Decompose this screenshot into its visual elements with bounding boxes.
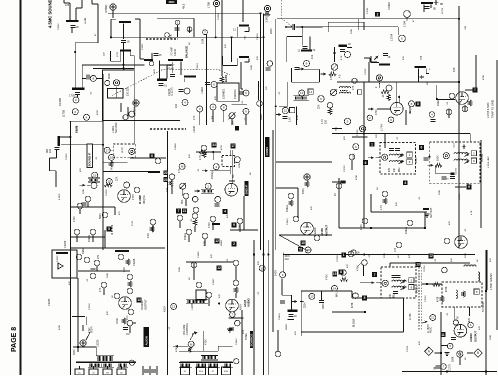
resistor	[462, 291, 466, 297]
capacitor	[151, 370, 156, 372]
callout 12b	[217, 266, 222, 271]
terminal	[155, 158, 161, 164]
svg-text:470K: 470K	[59, 324, 61, 330]
pin 8b	[409, 285, 414, 290]
callout 17	[231, 144, 236, 149]
terminal 13	[299, 90, 305, 96]
svg-text:C1709: C1709	[424, 265, 426, 272]
terminal	[351, 250, 356, 255]
wire	[418, 69, 420, 83]
svg-text:8: 8	[340, 270, 342, 274]
terminal	[84, 257, 90, 263]
callout 23	[163, 177, 168, 182]
wire diagonal	[279, 235, 308, 251]
wire	[364, 57, 370, 59]
svg-text:250K: 250K	[453, 356, 455, 362]
wire	[134, 121, 136, 145]
transformer winding b	[102, 363, 114, 368]
wire	[229, 180, 235, 182]
arrow	[400, 286, 407, 291]
wire	[177, 25, 179, 37]
svg-text:470K: 470K	[297, 114, 299, 120]
wire	[152, 225, 154, 232]
svg-text:4700: 4700	[208, 222, 211, 228]
terminal	[259, 265, 265, 271]
terminal	[430, 315, 436, 321]
terminal	[447, 343, 453, 349]
svg-text:12: 12	[431, 316, 435, 320]
ground G1	[424, 214, 429, 217]
svg-text:450V: 450V	[164, 306, 167, 312]
svg-text:C1211: C1211	[74, 125, 78, 133]
svg-text:1MEG: 1MEG	[261, 114, 263, 120]
wire bus 3	[275, 19, 277, 250]
terminal	[101, 282, 107, 288]
junction	[363, 132, 365, 134]
capacitor C1211	[55, 148, 60, 150]
svg-text:C1711: C1711	[407, 345, 409, 352]
wire long horizontal bottom	[283, 254, 475, 256]
wire	[76, 235, 78, 242]
coil T1701 secondary	[390, 161, 404, 162]
svg-text:4C: 4C	[78, 373, 81, 375]
wire long vertical	[363, 82, 365, 228]
svg-text:10: 10	[301, 241, 305, 245]
coil L1209 core	[184, 76, 196, 78]
wire bus 6	[272, 130, 274, 332]
svg-text:47K: 47K	[99, 287, 102, 292]
arrow	[191, 331, 198, 336]
tube V1703	[455, 236, 468, 249]
terminal	[344, 118, 350, 124]
svg-text:PAGE 8: PAGE 8	[11, 327, 18, 352]
terminal	[127, 288, 133, 294]
wire	[475, 55, 477, 90]
diode M1201	[58, 263, 63, 269]
svg-text:13: 13	[310, 295, 314, 299]
wire long vertical left	[69, 121, 71, 375]
tube V1401 video amp	[225, 183, 238, 196]
svg-text:C1207: C1207	[142, 43, 144, 50]
resistor R1230	[122, 318, 126, 324]
capacitor	[436, 366, 441, 368]
terminal	[353, 144, 359, 150]
wire	[358, 19, 360, 30]
svg-text:4BQ7: 4BQ7	[408, 106, 412, 114]
callout 2b	[232, 242, 237, 247]
wire	[378, 81, 380, 88]
control box	[196, 290, 206, 300]
adjustment screw A1402	[304, 174, 310, 180]
svg-text:1N60: 1N60	[82, 247, 85, 254]
terminal	[104, 147, 110, 153]
svg-text:AU2C: AU2C	[430, 326, 433, 333]
resistor element	[294, 96, 310, 101]
wire	[204, 239, 206, 246]
svg-text:10: 10	[261, 266, 265, 270]
wire	[370, 56, 372, 63]
svg-text:4700: 4700	[73, 216, 76, 222]
svg-text:1.5K: 1.5K	[289, 117, 292, 122]
svg-text:220K: 220K	[465, 252, 467, 258]
svg-text:470K: 470K	[352, 302, 354, 308]
resistor R1231	[234, 287, 238, 293]
terminal	[175, 20, 180, 25]
capacitor C1222	[82, 203, 87, 205]
wire	[231, 119, 233, 125]
terminal	[72, 109, 78, 115]
capacitor	[389, 149, 394, 151]
wire	[360, 282, 373, 284]
wire	[241, 88, 243, 90]
wire	[171, 62, 173, 73]
terminal box	[181, 367, 190, 375]
svg-text:C1701: C1701	[367, 7, 369, 14]
terminal	[213, 164, 219, 170]
tube V1704 audio output	[454, 325, 467, 338]
capacitor C1217	[178, 90, 183, 92]
section label	[245, 181, 249, 196]
callout 22	[163, 170, 168, 175]
wire	[248, 27, 250, 31]
terminal	[409, 101, 415, 107]
terminal	[352, 78, 357, 83]
wire	[232, 103, 247, 105]
wire	[133, 56, 135, 70]
wire	[424, 212, 426, 228]
terminal	[221, 105, 227, 111]
svg-text:8: 8	[417, 102, 419, 106]
coil L1707	[464, 265, 476, 267]
terminal	[233, 280, 239, 286]
svg-text:47K: 47K	[295, 331, 297, 335]
terminal	[243, 90, 249, 96]
wire diagonal 2	[190, 331, 195, 340]
junction	[262, 36, 264, 38]
wire	[231, 150, 233, 183]
terminal	[429, 112, 435, 118]
capacitor	[393, 292, 398, 294]
svg-text:47K: 47K	[169, 34, 173, 39]
terminal	[288, 193, 294, 199]
transformer winding f	[207, 363, 220, 368]
svg-text:100 22K: 100 22K	[127, 86, 130, 96]
svg-text:220K: 220K	[490, 334, 492, 340]
terminal	[179, 163, 185, 169]
resistor R1211	[109, 161, 113, 167]
transformer core bar	[76, 362, 136, 363]
wire	[352, 136, 367, 138]
wire vertical	[241, 310, 243, 375]
svg-text:9: 9	[468, 185, 470, 189]
wire	[215, 7, 217, 38]
svg-text:140V: 140V	[275, 270, 278, 276]
svg-text:1M: 1M	[126, 333, 129, 336]
svg-text:17: 17	[106, 148, 110, 152]
wire long	[77, 278, 79, 352]
coil core	[339, 45, 348, 47]
wire	[300, 301, 304, 303]
svg-text:C1228: C1228	[133, 258, 136, 266]
svg-text:TONE: TONE	[245, 333, 248, 340]
capacitor C1226	[91, 269, 96, 271]
svg-text:47K: 47K	[257, 56, 259, 60]
wire	[120, 103, 122, 112]
resistor R1215	[264, 12, 270, 16]
arrow	[428, 164, 434, 167]
terminal box	[222, 367, 231, 375]
wire	[425, 69, 427, 74]
svg-text:(C1217): (C1217)	[171, 87, 174, 96]
terminal	[388, 117, 394, 123]
wire	[81, 65, 83, 88]
wire	[121, 366, 123, 369]
variable capacitor C1220	[285, 24, 295, 30]
resistor R1702	[387, 95, 391, 101]
wire	[300, 68, 319, 70]
terminal	[192, 196, 198, 202]
svg-text:47uH: 47uH	[167, 67, 174, 71]
wire	[376, 282, 381, 284]
wire	[114, 207, 116, 215]
section label CONV	[265, 137, 270, 157]
svg-text:47K: 47K	[193, 115, 196, 120]
coil L1704b	[340, 92, 351, 93]
wire	[186, 261, 233, 263]
capacitor	[396, 276, 401, 278]
wire	[301, 27, 303, 46]
svg-text:4.5MC: 4.5MC	[104, 5, 108, 13]
coil L1410 core	[288, 310, 298, 313]
wire	[276, 114, 279, 116]
svg-text:4.5MC: 4.5MC	[59, 193, 61, 200]
wire	[281, 278, 283, 295]
resistor R1212	[104, 183, 112, 187]
transformer winding a	[88, 363, 104, 368]
terminal	[210, 216, 216, 222]
capacitor	[266, 68, 271, 70]
capacitor C1206	[87, 75, 89, 80]
wire	[384, 134, 386, 149]
terminal	[349, 154, 355, 160]
wire	[282, 294, 292, 296]
pin square	[358, 90, 362, 94]
wire AGC line	[277, 18, 459, 20]
terminal	[206, 292, 212, 298]
svg-text:450V: 450V	[285, 256, 291, 258]
wire	[469, 307, 471, 316]
wire	[79, 209, 81, 214]
capacitor	[451, 338, 456, 340]
resistor R1708	[440, 296, 444, 302]
transformer winding e	[195, 363, 208, 368]
wire	[76, 7, 82, 9]
wire	[279, 105, 288, 107]
tube V1204 audio amp	[226, 299, 239, 312]
wire	[486, 250, 488, 290]
svg-text:C1230: C1230	[97, 339, 100, 347]
wire	[159, 64, 172, 66]
wire	[72, 316, 85, 318]
coil L1203 core	[120, 50, 131, 52]
junction	[215, 36, 217, 38]
wire	[223, 111, 225, 123]
terminal	[382, 191, 388, 197]
svg-text:1-3/4: 1-3/4	[403, 21, 407, 27]
svg-text:470K: 470K	[483, 74, 485, 80]
coil T1703 primary	[392, 280, 406, 281]
adjustment screw	[129, 148, 135, 154]
pot 2	[330, 89, 336, 95]
capacitor C1216	[205, 83, 210, 85]
coil T1702 secondary	[454, 159, 468, 160]
wire	[371, 211, 427, 213]
terminal	[85, 196, 91, 202]
resistor R1228	[126, 259, 130, 265]
svg-text:47K: 47K	[69, 281, 71, 285]
terminal 8	[90, 75, 96, 81]
svg-text:C1707: C1707	[450, 363, 452, 371]
linkage dashed vertical	[281, 0, 283, 18]
ground G3	[227, 329, 232, 332]
wire	[351, 291, 353, 298]
svg-text:SET BRT: SET BRT	[430, 207, 433, 218]
callout 5	[107, 227, 112, 232]
wire	[82, 77, 86, 79]
svg-text:470K: 470K	[446, 286, 448, 292]
wire	[376, 157, 381, 159]
wire	[75, 42, 98, 44]
callout 8	[416, 102, 421, 107]
wire	[86, 317, 88, 325]
junction	[426, 283, 428, 285]
pot arrow	[332, 64, 338, 70]
wire	[157, 17, 194, 19]
wire	[171, 186, 173, 194]
svg-text:TO GRID: TO GRID	[482, 302, 485, 312]
wire	[218, 345, 232, 347]
wire	[208, 298, 210, 306]
pot arrow	[86, 332, 90, 340]
wire right edge vertical	[485, 250, 487, 375]
svg-text:220K: 220K	[251, 64, 253, 70]
junction	[334, 52, 336, 54]
capacitor	[340, 50, 345, 52]
wire	[245, 30, 249, 32]
wire	[436, 85, 438, 100]
wire	[103, 288, 105, 295]
svg-text:41B: 41B	[199, 371, 203, 373]
terminal	[197, 106, 203, 112]
arrow	[276, 113, 282, 116]
terminal	[446, 109, 452, 115]
capacitor C1203	[154, 54, 159, 56]
terminal	[237, 218, 243, 224]
wire	[363, 22, 365, 30]
svg-text:47K: 47K	[189, 154, 191, 158]
svg-text:4: 4	[404, 181, 406, 185]
wire	[467, 183, 469, 185]
terminal	[106, 179, 112, 185]
section label SOURCE	[250, 331, 254, 348]
svg-text:C1708: C1708	[337, 255, 339, 262]
svg-text:5: 5	[364, 296, 366, 300]
wire horizontal	[276, 161, 332, 163]
wire	[149, 366, 151, 375]
junction	[74, 51, 76, 53]
wire bus 5	[267, 240, 269, 375]
callout 12d	[429, 254, 434, 259]
terminal	[90, 273, 96, 279]
svg-text:220K: 220K	[107, 272, 109, 278]
svg-text:47K: 47K	[80, 168, 82, 172]
svg-text:ALIGN: ALIGN	[144, 336, 148, 345]
wire B+ bus	[263, 14, 265, 376]
svg-text:500K: 500K	[73, 349, 76, 355]
svg-text:L1700: L1700	[442, 7, 444, 14]
svg-text:L1216: L1216	[201, 87, 204, 94]
volume control element	[186, 299, 208, 304]
arrow	[299, 68, 305, 71]
IF transformer T1702 shield	[429, 142, 480, 183]
svg-text:L1705 4.5MC: L1705 4.5MC	[486, 102, 490, 118]
terminal	[293, 216, 299, 222]
terminal	[186, 229, 192, 235]
resistor R1224	[305, 181, 309, 187]
wire box left	[300, 291, 302, 336]
terminal	[169, 174, 175, 180]
capacitor	[392, 276, 397, 278]
capacitor C1221	[303, 47, 308, 49]
terminal	[215, 196, 221, 202]
svg-text:150K: 150K	[353, 153, 356, 159]
pot arrow	[331, 89, 337, 95]
transformer core bar 2	[180, 362, 232, 363]
wire	[421, 283, 442, 285]
svg-text:1MEG: 1MEG	[286, 205, 289, 212]
wire	[77, 95, 79, 97]
svg-text:C1703: C1703	[344, 165, 346, 172]
wire	[115, 86, 117, 98]
test point A	[425, 347, 433, 355]
transformer T1704 shield	[442, 282, 482, 307]
callout 9b	[232, 223, 237, 228]
svg-text:1: 1	[371, 143, 373, 147]
junction	[259, 12, 261, 14]
terminal	[150, 219, 156, 225]
wire long vertical mid-left	[102, 74, 104, 250]
svg-text:PHONO: PHONO	[233, 89, 237, 99]
wire	[55, 150, 57, 159]
pin 2	[407, 152, 412, 157]
svg-text:47K: 47K	[469, 317, 471, 322]
svg-text:SND IF: SND IF	[245, 184, 249, 194]
svg-text:L.PHIL 4MC: L.PHIL 4MC	[488, 156, 490, 168]
wire	[91, 0, 93, 4]
wire	[435, 172, 452, 174]
svg-text:220K: 220K	[83, 188, 85, 194]
terminal	[345, 52, 351, 58]
wire	[371, 62, 379, 64]
svg-text:1T06: 1T06	[132, 220, 134, 226]
svg-text:L1408: L1408	[193, 126, 196, 133]
coil L1211 core vertical	[57, 136, 60, 146]
wire	[130, 157, 166, 159]
capacitor C1218	[239, 92, 244, 94]
terminal	[386, 85, 392, 91]
wire	[193, 18, 195, 37]
volume control	[80, 340, 86, 346]
